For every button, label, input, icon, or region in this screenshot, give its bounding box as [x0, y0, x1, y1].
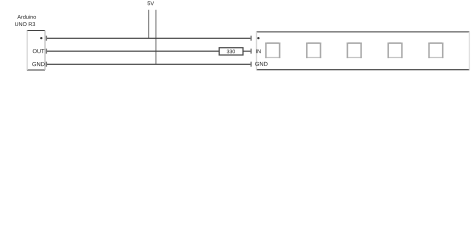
pin tick Arduino GND [45, 62, 47, 67]
pin tick LED strip IN [250, 49, 252, 54]
pin OUT label [33, 49, 45, 53]
LED 5 [428, 43, 443, 59]
LED 2 [306, 43, 321, 59]
LED 3 [347, 43, 362, 59]
pin tick LED strip GND [250, 62, 252, 67]
pin tick LED strip pin 1 [250, 36, 252, 41]
pin tick Arduino OUT [45, 49, 47, 54]
pin IN label [256, 49, 261, 53]
wire OUT to resistor [46, 50, 219, 52]
LED strip module body [257, 32, 470, 70]
pin 5V dot (LED strip) [257, 37, 259, 39]
wire resistor to IN [243, 50, 251, 52]
pin GND label (LED strip) [255, 62, 267, 66]
wire GND net (bottom horizontal) [46, 63, 251, 65]
pin 5V dot (Arduino) [40, 37, 42, 39]
pin GND label (Arduino) [32, 62, 44, 66]
pin tick Arduino pin 1 [45, 36, 47, 41]
label Arduino UNO R3 [15, 15, 36, 26]
power 5V label [148, 1, 154, 5]
Arduino module body [27, 31, 45, 71]
wire top net (Arduino pin 1 to LED strip) [46, 37, 251, 39]
wire 5V drop to GND net [155, 10, 157, 65]
LED 4 [388, 43, 403, 59]
wire 5V drop to top net [148, 10, 150, 39]
resistor 330 [219, 48, 243, 55]
LED 1 [265, 43, 280, 59]
